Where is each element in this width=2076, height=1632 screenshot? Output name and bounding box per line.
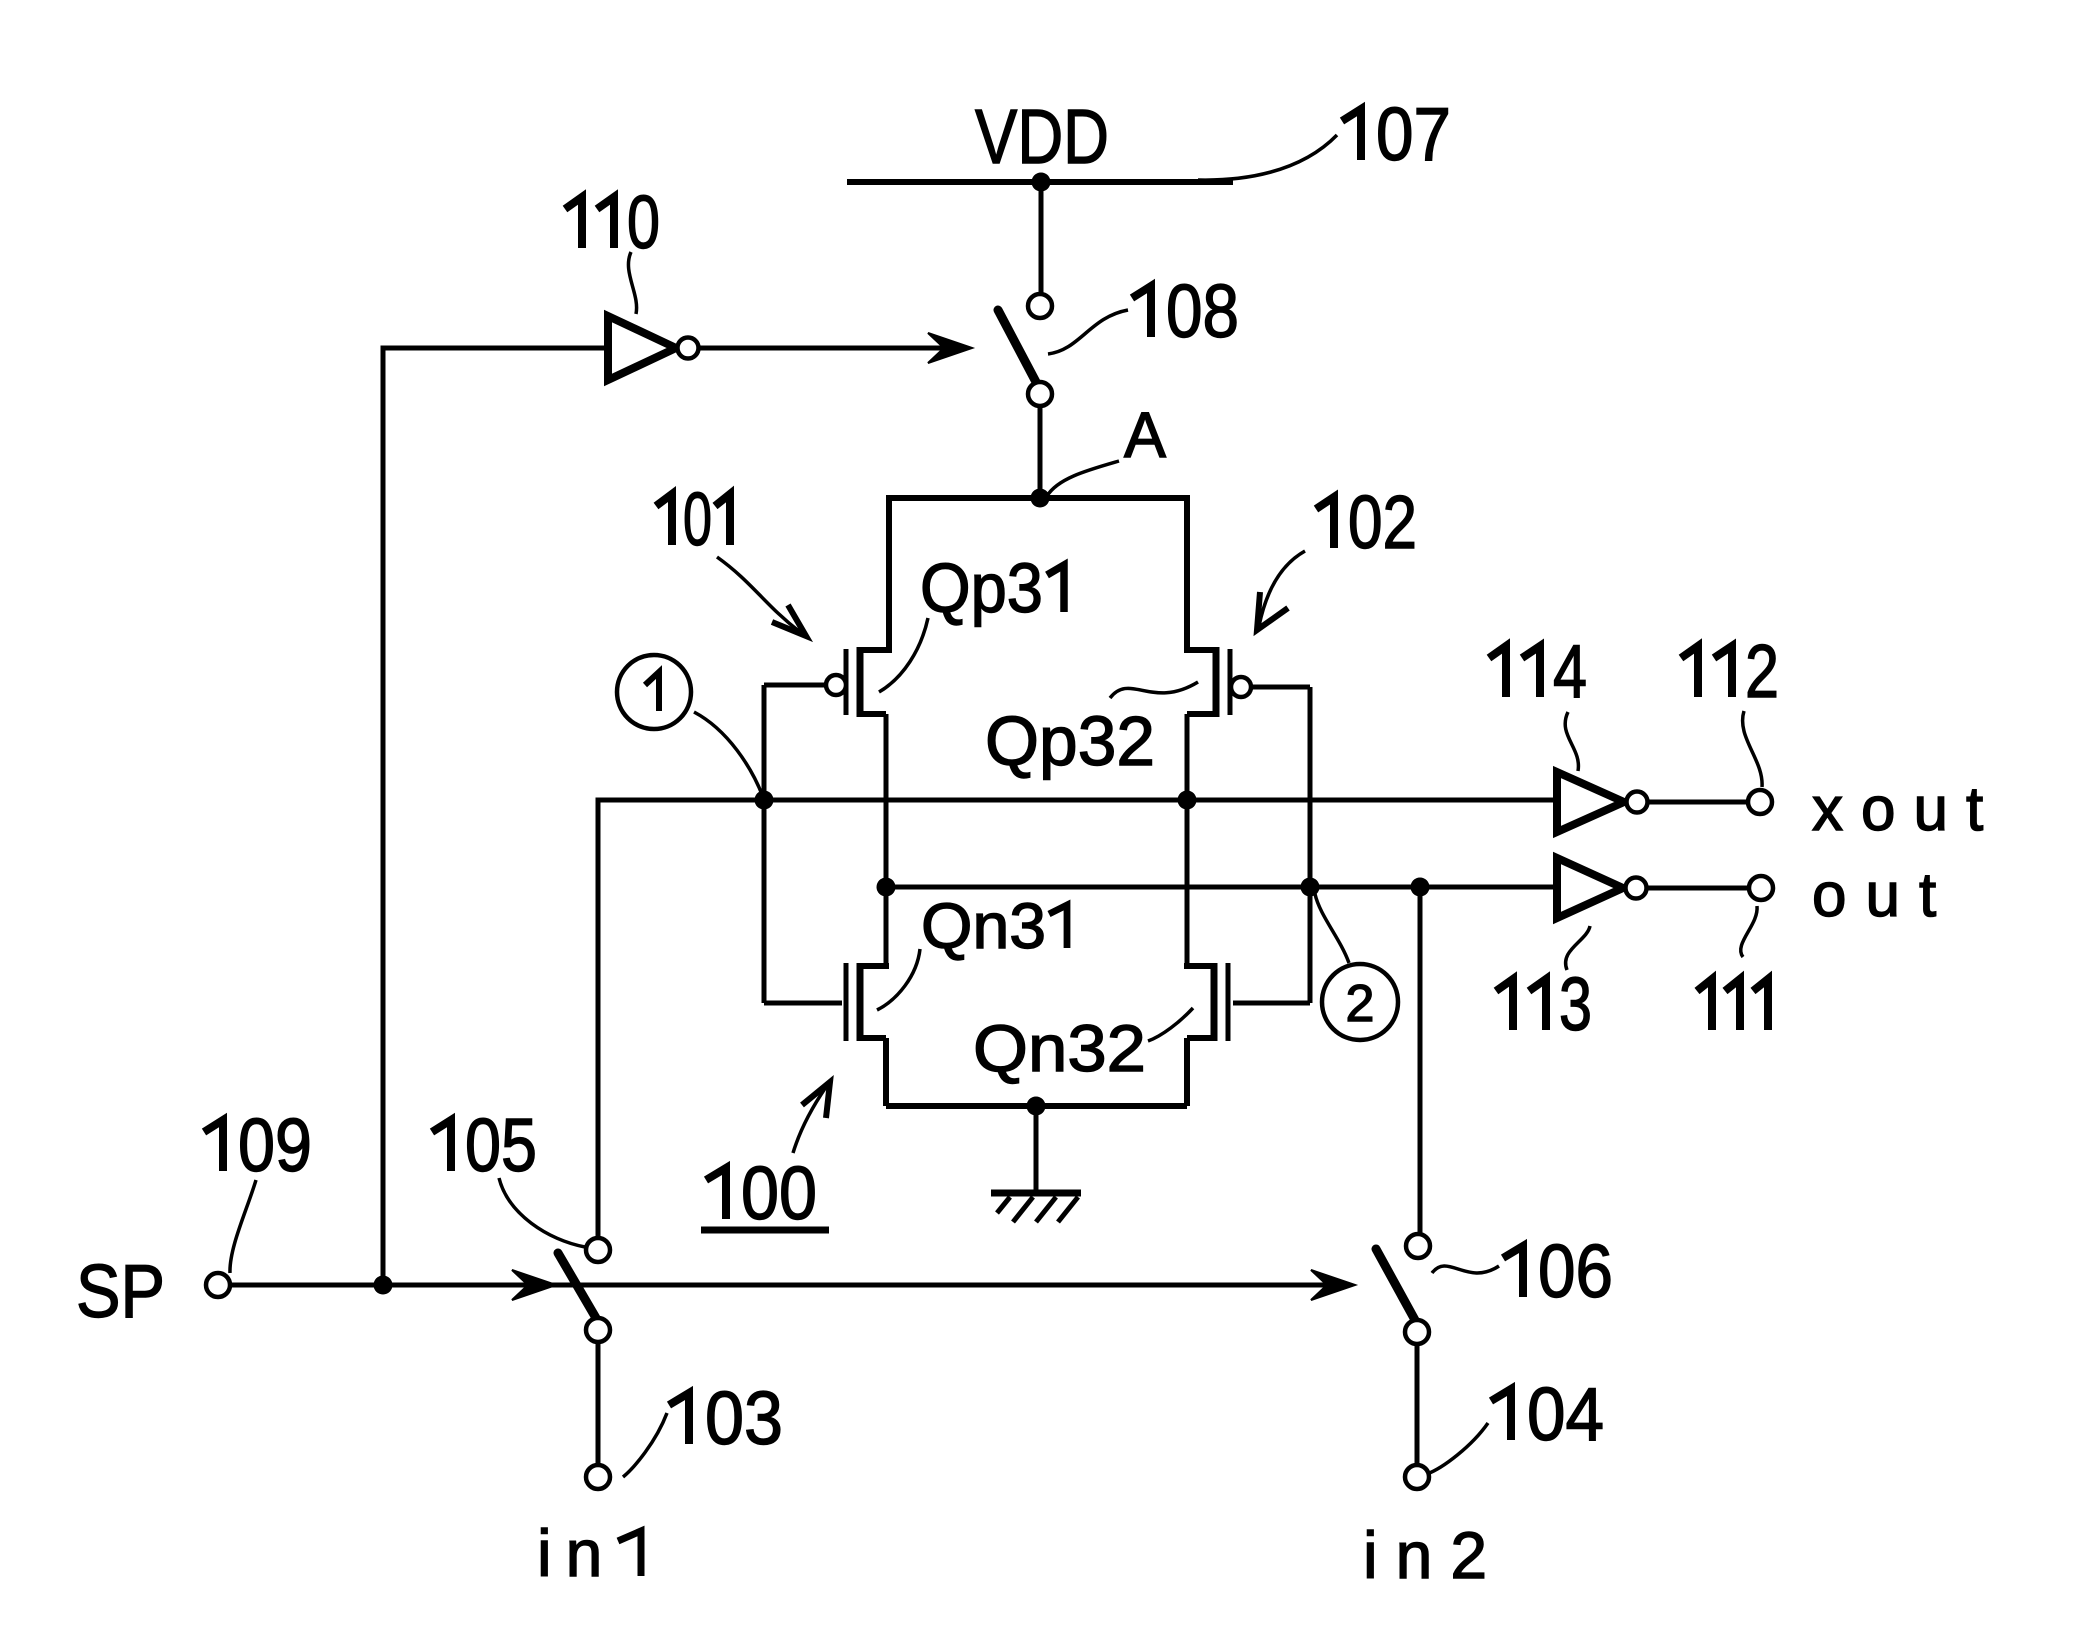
node: VDD junction dot bbox=[1032, 173, 1051, 192]
leader 110 bbox=[628, 252, 636, 314]
node 1 junction dot (drain Qp32) bbox=[1178, 791, 1197, 810]
Qp31 drain step bbox=[860, 711, 886, 717]
arrow 100 bbox=[793, 1087, 826, 1153]
label 114 bbox=[1489, 646, 1506, 697]
transistor Qn31 bbox=[764, 963, 889, 1106]
switch 108 top contact bbox=[1028, 294, 1052, 318]
label 107 bbox=[1342, 109, 1361, 160]
svg-text:02: 02 bbox=[1348, 480, 1417, 564]
terminal xout 112 bbox=[1748, 790, 1772, 814]
Qn31 source wire bbox=[883, 1038, 889, 1106]
label 113 bbox=[1496, 979, 1513, 1030]
leader 113 bbox=[1566, 926, 1590, 970]
leader 108 bbox=[1048, 310, 1128, 354]
svg-text:05: 05 bbox=[465, 1103, 537, 1187]
svg-text:07: 07 bbox=[1376, 92, 1451, 176]
inverter U110 bubble bbox=[678, 338, 699, 359]
leader Qn31 bbox=[877, 949, 920, 1010]
svg-text:08: 08 bbox=[1166, 269, 1239, 353]
wire node 2 to switch 106 bbox=[1418, 887, 1423, 1234]
node 2 wire bbox=[886, 885, 1557, 890]
wire switch 108 to node A bbox=[1038, 406, 1043, 498]
label 108 bbox=[1132, 286, 1151, 337]
Qn32 source step bbox=[1187, 1035, 1214, 1041]
circled node label 2 bbox=[1322, 964, 1398, 1040]
label 111 bbox=[1697, 979, 1712, 1030]
arrow 102 bbox=[1259, 551, 1305, 626]
leader circled 2 bbox=[1315, 894, 1349, 963]
wire node1 gate drop (x764) bbox=[762, 685, 767, 1003]
label 100 bbox=[706, 1168, 726, 1219]
svg-text:Qp3: Qp3 bbox=[920, 549, 1043, 627]
transistor Qn32 bbox=[1184, 963, 1310, 1106]
Qn32 channel bar bbox=[1211, 963, 1218, 1041]
wire box right upper bbox=[1184, 495, 1190, 650]
Qn32 gate bar bbox=[1226, 963, 1231, 1041]
terminal out 111 bbox=[1749, 876, 1773, 900]
wire node2 gate drop (x1310) bbox=[1308, 687, 1313, 1003]
node A junction dot bbox=[1031, 489, 1050, 508]
leader 112 bbox=[1743, 711, 1763, 787]
Qn32 source wire bbox=[1184, 1038, 1190, 1106]
ground junction dot bbox=[1027, 1097, 1046, 1116]
leader circled 1 bbox=[694, 712, 763, 797]
cell 100 box top edge (node A) bbox=[889, 495, 1187, 501]
svg-text:04: 04 bbox=[1527, 1372, 1604, 1456]
Qp31 gate wire bbox=[764, 683, 826, 688]
svg-text:2: 2 bbox=[1346, 975, 1375, 1033]
Qn31 gate wire bbox=[764, 1001, 842, 1006]
wire switch 106 to in2 bbox=[1415, 1344, 1420, 1465]
Qn31 drain step bbox=[860, 963, 889, 969]
Qp32 gate bar bbox=[1228, 649, 1233, 715]
SP input terminal 109 bbox=[206, 1273, 230, 1297]
leader node A bbox=[1047, 461, 1119, 496]
label 101 bbox=[656, 494, 672, 545]
svg-text:2: 2 bbox=[1745, 629, 1779, 713]
Qp32 gate bubble bbox=[1231, 677, 1251, 697]
svg-text:03: 03 bbox=[705, 1376, 783, 1460]
svg-text:4: 4 bbox=[1553, 629, 1587, 713]
Qn31 source step bbox=[860, 1035, 886, 1041]
wire box left upper bbox=[886, 495, 892, 650]
leader 107 bbox=[1198, 135, 1337, 180]
label 110 bbox=[565, 197, 582, 248]
svg-text:A: A bbox=[1124, 399, 1166, 471]
wire Qp32 drain to Qn32 drain bbox=[1185, 714, 1190, 966]
SP junction dot bbox=[374, 1276, 393, 1295]
label 106 bbox=[1503, 1246, 1523, 1297]
svg-text:SP: SP bbox=[76, 1249, 165, 1333]
terminal in1 103 bbox=[586, 1465, 610, 1489]
leader Qp32 bbox=[1110, 682, 1198, 698]
leader 106 bbox=[1432, 1266, 1499, 1273]
wire inverter 114 output bbox=[1648, 800, 1748, 805]
Qp32 channel bar bbox=[1213, 647, 1220, 717]
arrowhead at switch 106 bbox=[1311, 1270, 1355, 1300]
svg-text:09: 09 bbox=[238, 1103, 312, 1187]
arrow 101 bbox=[717, 557, 800, 632]
label 102 bbox=[1316, 497, 1334, 548]
switch 106 top contact bbox=[1406, 1234, 1430, 1258]
inverter U110 input wire bbox=[383, 348, 607, 1285]
VDD rail 107 bbox=[847, 179, 1233, 185]
arrowhead at switch 105 bbox=[512, 1270, 556, 1300]
wire VDD to switch 108 bbox=[1039, 182, 1044, 294]
svg-text:Qn3: Qn3 bbox=[921, 890, 1046, 962]
inverter U110 bbox=[608, 316, 676, 380]
svg-text:3: 3 bbox=[1559, 962, 1592, 1046]
switch 105 blade bbox=[558, 1253, 596, 1318]
leader 109 bbox=[230, 1180, 256, 1273]
wire switch 105 to in1 bbox=[596, 1342, 601, 1465]
Qp31 source step bbox=[860, 647, 892, 653]
node 2 junction dot (gate Qp32) bbox=[1301, 878, 1320, 897]
svg-text:Qp32: Qp32 bbox=[985, 702, 1155, 780]
switch 105 top contact bbox=[586, 1238, 610, 1262]
svg-text:in2: in2 bbox=[1363, 1518, 1505, 1592]
wire inverter 113 output bbox=[1647, 886, 1749, 891]
inverter U114 bubble bbox=[1627, 792, 1648, 813]
svg-text:0: 0 bbox=[683, 477, 712, 561]
SP wire bbox=[230, 1283, 1348, 1288]
svg-text:VDD: VDD bbox=[975, 94, 1109, 180]
Qn31 channel bar bbox=[857, 963, 864, 1041]
Qn32 gate wire bbox=[1233, 1001, 1310, 1006]
inverter U114 bbox=[1557, 772, 1624, 832]
switch 108 bottom contact bbox=[1028, 382, 1052, 406]
underline 100 bbox=[701, 1227, 829, 1234]
transistor Qp31 bbox=[826, 647, 892, 717]
node 1 wire bbox=[598, 800, 1557, 1238]
Qp31 channel bar bbox=[857, 647, 864, 717]
switch 106 blade bbox=[1376, 1249, 1415, 1320]
svg-text:Qn32: Qn32 bbox=[973, 1011, 1146, 1085]
Qp31 gate bubble bbox=[826, 675, 846, 695]
svg-text:xout: xout bbox=[1812, 775, 2001, 844]
transistor Qp32 bbox=[1184, 495, 1251, 717]
inverter U113 bubble bbox=[1626, 878, 1647, 899]
cell 100 box bottom edge bbox=[886, 1103, 1187, 1109]
leader 104 bbox=[1427, 1423, 1488, 1474]
svg-text:out: out bbox=[1812, 861, 1955, 930]
ground bbox=[991, 1106, 1081, 1222]
svg-text:00: 00 bbox=[741, 1151, 817, 1235]
terminal in2 104 bbox=[1405, 1465, 1429, 1489]
circled node label 1 bbox=[617, 655, 691, 729]
leader 105 bbox=[499, 1178, 585, 1247]
inverter U113 bbox=[1557, 858, 1623, 918]
svg-text:0: 0 bbox=[627, 180, 660, 264]
Qn31 gate bar bbox=[844, 963, 849, 1041]
node 2 junction dot (switch 106 branch) bbox=[1411, 878, 1430, 897]
label 104 bbox=[1491, 1389, 1511, 1440]
label 105 bbox=[432, 1120, 451, 1171]
Qp31 gate bar bbox=[844, 649, 849, 715]
wire Qp31 drain to Qn31 drain bbox=[884, 714, 889, 966]
Qp32 drain step bbox=[1187, 711, 1216, 717]
arrowhead at switch 108 bbox=[928, 333, 972, 363]
label 112 bbox=[1681, 646, 1698, 697]
label 109 bbox=[204, 1120, 223, 1171]
leader 111 bbox=[1741, 906, 1757, 957]
svg-text:in: in bbox=[537, 1516, 616, 1590]
switch 108 blade bbox=[998, 310, 1036, 382]
Qp32 source step bbox=[1184, 647, 1216, 653]
switch 105 bottom contact bbox=[586, 1318, 610, 1342]
Qp32 gate wire bbox=[1252, 685, 1310, 690]
label 103 bbox=[669, 1393, 689, 1444]
Qn32 drain step bbox=[1184, 963, 1214, 969]
switch 106 bottom contact bbox=[1405, 1320, 1429, 1344]
node 1 junction dot (gate Qp31) bbox=[755, 791, 774, 810]
leader 103 bbox=[623, 1413, 667, 1477]
svg-text:06: 06 bbox=[1538, 1229, 1613, 1313]
leader Qn32 bbox=[1148, 1008, 1193, 1041]
leader 114 bbox=[1565, 712, 1578, 771]
leader Qp31 bbox=[879, 618, 928, 692]
wire inverter 110 output to switch 108 bbox=[699, 346, 966, 351]
node 2 junction dot (drain Qp31) bbox=[877, 878, 896, 897]
